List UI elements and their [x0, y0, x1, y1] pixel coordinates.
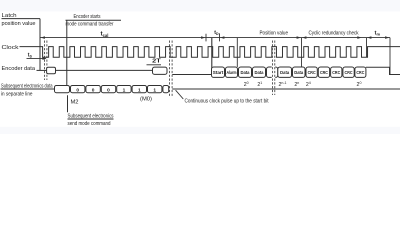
svg-text:Clock: Clock — [2, 45, 19, 51]
arrow crc left — [302, 36, 306, 39]
cell mode bit 3 value 1 — [117, 86, 131, 93]
cell CRC bit 4 — [306, 67, 317, 77]
cell mode trail — [163, 86, 169, 93]
svg-text:position value: position value — [2, 21, 36, 27]
svg-text:0: 0 — [107, 87, 110, 93]
svg-text:0: 0 — [76, 87, 79, 93]
svg-text:CRC: CRC — [320, 70, 328, 75]
cell mode bit 5 value 1 — [148, 86, 162, 93]
cell mode bit 1 value 0 — [86, 86, 100, 93]
top page band — [0, 0, 400, 12]
wire dimension line — [40, 37, 390, 39]
cell mode lead — [55, 86, 70, 93]
wire latch callout vertical — [39, 19, 41, 71]
vertical marker after alarm bit — [236, 38, 238, 67]
svg-text:Data: Data — [280, 70, 289, 75]
cell mode-ack wide — [153, 67, 168, 74]
svg-text:mode command transfer: mode command transfer — [66, 22, 114, 28]
svg-text:Alarm: Alarm — [227, 70, 237, 75]
clock waveform — [20, 47, 400, 58]
svg-text:0: 0 — [92, 87, 95, 93]
cell Alarm bit — [226, 67, 238, 77]
svg-text:2T: 2T — [152, 59, 162, 65]
arrow position-value left — [220, 36, 224, 39]
svg-text:1: 1 — [153, 87, 156, 93]
arrow tm left — [367, 36, 371, 39]
cell mode bit 0 value 0 — [71, 86, 85, 93]
vertical marker at start bit — [211, 38, 213, 75]
wire send-mode-command callout vertical — [67, 95, 69, 112]
vertical marker at data end — [389, 38, 391, 75]
svg-text:CRC: CRC — [345, 70, 353, 75]
cell CRC bit 0 — [355, 67, 366, 77]
svg-text:(M0): (M0) — [140, 97, 152, 103]
svg-text:CRC: CRC — [356, 70, 364, 75]
arrow tcal right — [201, 36, 205, 39]
cell CRC bit 1 — [343, 67, 354, 77]
wire subsequent row right — [172, 88, 400, 90]
break lines mid data — [271, 41, 273, 96]
wire subsequent row left — [1, 88, 55, 90]
break lines after first clock edge — [43, 41, 45, 81]
wire 2T dimension — [147, 64, 162, 66]
wire encoder data mid level — [56, 69, 153, 71]
cell Data 2^n — [293, 67, 306, 77]
wire encoder data lead-in — [37, 69, 47, 71]
svg-text:Data: Data — [241, 70, 250, 75]
arrow crc right — [357, 36, 361, 39]
svg-text:CRC: CRC — [308, 70, 316, 75]
cell Data 2^1 — [253, 67, 266, 77]
wire encoder-starts callout vertical — [66, 20, 68, 85]
arrow tcal left — [41, 36, 45, 39]
cell Data 2^n-1 — [278, 67, 292, 77]
wire encoder data low level — [172, 74, 212, 76]
svg-text:in separate line: in separate line — [1, 91, 33, 97]
page background — [0, 0, 400, 134]
svg-text:M2: M2 — [71, 99, 79, 105]
cell Start bit — [212, 67, 225, 77]
svg-text:Start: Start — [213, 70, 224, 75]
wire continuous-clock callout — [176, 90, 184, 99]
vertical marker at last clock rise — [366, 38, 368, 58]
svg-text:CRC: CRC — [332, 70, 340, 75]
svg-text:Cyclic redundancy check: Cyclic redundancy check — [309, 30, 359, 36]
svg-text:1: 1 — [123, 87, 126, 93]
cell mode-ack small — [47, 67, 56, 73]
cell mode bit 4 value 1 — [132, 86, 146, 93]
svg-text:tm: tm — [375, 30, 381, 36]
svg-text:Data: Data — [255, 70, 264, 75]
break gap white — [272, 60, 276, 95]
cell CRC bit 3 — [318, 67, 329, 77]
arrow position-value right — [297, 36, 301, 39]
arrow tS right — [42, 57, 46, 60]
svg-text:Position value: Position value — [260, 30, 289, 36]
cell Data cut by break — [267, 67, 278, 77]
wire tS dimension — [27, 58, 46, 60]
wire encoder-starts underline — [66, 19, 122, 21]
wire data high after CRC — [366, 67, 400, 74]
vertical marker at CRC start — [301, 38, 303, 67]
svg-text:Continuous clock pulse up to t: Continuous clock pulse up to the start b… — [185, 98, 270, 104]
tick at start-bit span right — [219, 33, 221, 41]
wire latch callout underline — [2, 18, 41, 20]
svg-text:Encoder starts: Encoder starts — [74, 14, 101, 20]
arrow tm right — [385, 36, 389, 39]
cell Data 2^0 — [239, 67, 252, 77]
bottom page band — [0, 127, 400, 134]
wire send-mode-command underline — [68, 118, 114, 120]
cell mode bit 2 value 0 — [101, 86, 115, 93]
break lines after mode command — [169, 41, 171, 98]
svg-text:Encoder data: Encoder data — [2, 66, 36, 72]
tick at start-bit span left — [205, 34, 207, 42]
svg-text:send mode command: send mode command — [68, 121, 111, 127]
svg-text:1: 1 — [138, 87, 141, 93]
svg-text:Data: Data — [294, 70, 303, 75]
cell CRC bit 2 — [331, 67, 342, 77]
